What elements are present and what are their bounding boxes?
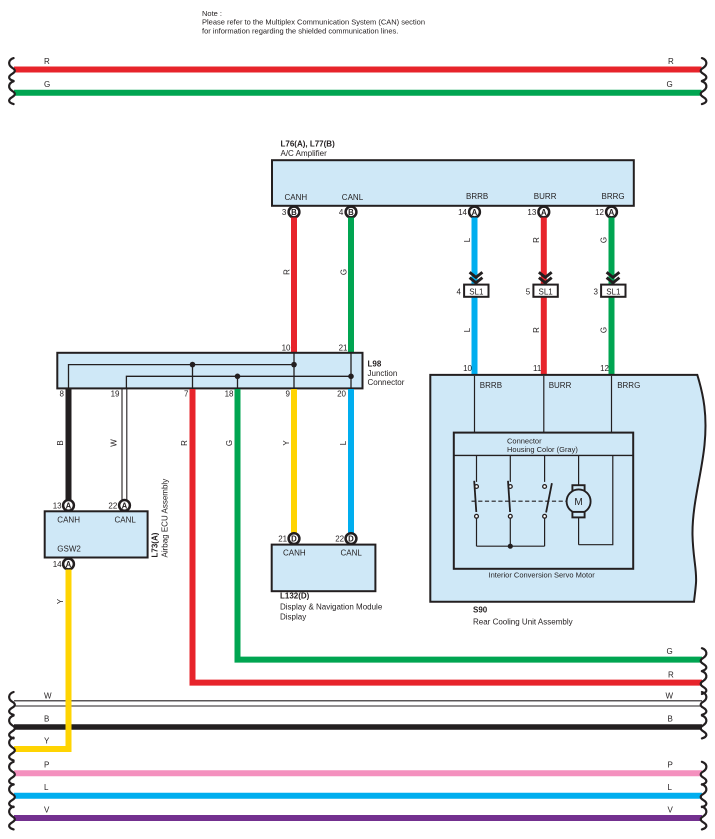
wire L (L98 pin 20 to display pin 22) xyxy=(339,389,351,533)
wire Y (L98 pin 9 to display pin 21) xyxy=(282,389,294,533)
svg-text:W: W xyxy=(44,692,52,701)
L98 internal vertical pin 7 xyxy=(192,365,194,388)
svg-text:BRRB: BRRB xyxy=(466,192,488,201)
svg-text:S90: S90 xyxy=(473,606,488,615)
wire B bottom horizontal xyxy=(14,715,702,727)
A/C amplifier box xyxy=(272,160,634,206)
pin 22 D (display CANL) xyxy=(335,533,356,544)
svg-text:GSW2: GSW2 xyxy=(57,545,81,554)
svg-text:18: 18 xyxy=(225,390,234,399)
wire G BRRG vertical (A/C pin 12 to S90 pin 12) xyxy=(600,218,612,376)
wire break squiggle top G left xyxy=(9,81,15,104)
svg-text:21: 21 xyxy=(278,535,287,544)
wire break squiggle R right xyxy=(701,671,707,694)
L98 label xyxy=(368,360,405,388)
svg-text:4: 4 xyxy=(456,287,461,296)
display module box L132 xyxy=(272,545,376,592)
splice SL1 no.5 xyxy=(526,272,558,297)
L98 internal vertical pin 10-9 xyxy=(293,354,295,389)
node pin18 junction xyxy=(235,374,241,380)
svg-text:A: A xyxy=(122,501,128,510)
svg-text:V: V xyxy=(44,806,50,815)
svg-text:A: A xyxy=(472,208,478,217)
svg-text:P: P xyxy=(668,761,673,770)
S90 label xyxy=(473,606,573,627)
switch common bus xyxy=(477,545,545,547)
wire W bottom horizontal xyxy=(14,692,702,706)
node pin7 junction xyxy=(190,362,196,368)
wire break squiggle L left xyxy=(9,784,15,807)
wire break squiggle G right xyxy=(701,648,707,671)
svg-text:BRRB: BRRB xyxy=(480,381,502,390)
switch SW1 xyxy=(474,455,478,546)
svg-text:14: 14 xyxy=(458,208,467,217)
svg-text:L98: L98 xyxy=(368,360,382,369)
svg-text:A: A xyxy=(66,560,72,569)
svg-text:Please refer to the Multiplex: Please refer to the Multiplex Communicat… xyxy=(202,18,425,27)
svg-text:A: A xyxy=(609,208,615,217)
node pin10 junction xyxy=(291,362,297,368)
L98 internal vertical pin 18 xyxy=(237,376,239,388)
svg-text:A/C Amplifier: A/C Amplifier xyxy=(281,149,328,158)
node switch bus junction xyxy=(508,544,513,549)
wire break squiggle V right xyxy=(701,807,707,830)
svg-text:Junction: Junction xyxy=(368,369,398,378)
S90 internal lead BURR xyxy=(544,376,572,432)
wire Y (airbag pin 14 to left edge) xyxy=(14,570,69,750)
wire break squiggle top R left xyxy=(9,58,15,81)
wire break squiggle W right xyxy=(701,692,707,715)
wire W (L98 pin 19 to airbag pin 22) xyxy=(110,389,127,500)
wire break squiggle top R right xyxy=(701,58,707,81)
svg-text:3: 3 xyxy=(282,208,287,217)
svg-text:21: 21 xyxy=(339,344,348,353)
pin 4 B (A/C CANL) xyxy=(339,207,357,218)
svg-text:L: L xyxy=(44,783,49,792)
pin 14 A (A/C BRRB) xyxy=(458,207,480,218)
motor M1 xyxy=(567,455,591,545)
pin 21 D (display CANH) xyxy=(278,533,299,544)
svg-text:B: B xyxy=(56,440,65,445)
servo motor inner box xyxy=(454,433,633,580)
L98 internal upper bus xyxy=(69,365,295,388)
svg-text:22: 22 xyxy=(108,501,117,510)
svg-text:P: P xyxy=(44,761,49,770)
wire break squiggle B right xyxy=(701,716,707,739)
svg-text:14: 14 xyxy=(53,560,62,569)
svg-text:L: L xyxy=(463,327,472,332)
svg-text:G: G xyxy=(225,440,234,446)
svg-text:G: G xyxy=(600,327,609,333)
svg-text:Y: Y xyxy=(282,440,291,446)
svg-text:Connector: Connector xyxy=(368,378,405,387)
svg-text:G: G xyxy=(44,80,50,89)
wire R top horizontal xyxy=(14,57,702,70)
wire P bottom horizontal xyxy=(14,761,702,774)
svg-text:Rear Cooling Unit Assembly: Rear Cooling Unit Assembly xyxy=(473,617,573,626)
svg-text:G: G xyxy=(600,237,609,243)
wire V bottom horizontal xyxy=(14,806,702,819)
splice SL1 no.4 xyxy=(456,272,488,297)
S90 internal lead BRRB xyxy=(475,376,503,432)
svg-text:3: 3 xyxy=(593,287,598,296)
wire G (L98 pin 18 to right edge) xyxy=(225,389,702,660)
A/C amplifier L76/L77 label xyxy=(281,140,336,159)
svg-text:R: R xyxy=(283,269,292,275)
svg-text:Note :: Note : xyxy=(202,9,222,18)
svg-text:BURR: BURR xyxy=(549,381,572,390)
svg-text:8: 8 xyxy=(60,390,65,399)
svg-text:L73(A): L73(A) xyxy=(151,532,160,557)
svg-text:11: 11 xyxy=(533,364,542,373)
svg-text:L: L xyxy=(339,440,348,445)
wire B (L98 pin 8 to airbag pin 13) xyxy=(56,389,69,500)
svg-text:CANH: CANH xyxy=(283,549,306,558)
switch SW2 xyxy=(508,455,512,546)
wire break squiggle V left xyxy=(9,807,15,830)
svg-text:G: G xyxy=(667,647,673,656)
node pin21 junction xyxy=(348,374,354,380)
wire G top horizontal xyxy=(14,80,702,93)
wire break squiggle Y left xyxy=(9,738,15,761)
wire R BURR vertical (A/C pin 13 to S90 pin 11) xyxy=(532,218,544,376)
L98 internal lower bus xyxy=(126,376,351,388)
svg-text:R: R xyxy=(668,671,674,680)
wire break squiggle top G right xyxy=(701,81,707,104)
L98 pin labels top xyxy=(282,344,348,353)
svg-text:13: 13 xyxy=(527,208,536,217)
svg-text:Display & Navigation Module: Display & Navigation Module xyxy=(280,602,383,611)
splice SL1 no.3 xyxy=(593,272,625,297)
pin 13 A (airbag CANH) xyxy=(53,500,74,511)
svg-text:B: B xyxy=(348,208,354,217)
svg-text:CANL: CANL xyxy=(342,193,364,202)
L132(D) display label xyxy=(280,592,383,622)
motor return wire xyxy=(579,455,613,545)
svg-text:Housing Color (Gray): Housing Color (Gray) xyxy=(507,445,578,454)
pin 14 A (airbag GSW2) xyxy=(53,559,74,570)
junction connector L98 box xyxy=(57,353,362,389)
svg-text:A: A xyxy=(66,501,72,510)
svg-text:D: D xyxy=(291,535,297,544)
svg-text:BRRG: BRRG xyxy=(617,381,640,390)
svg-text:Y: Y xyxy=(56,598,65,604)
svg-text:B: B xyxy=(44,715,49,724)
wire break squiggle W left xyxy=(9,692,15,715)
svg-text:CANL: CANL xyxy=(341,549,363,558)
svg-text:B: B xyxy=(668,715,673,724)
L98 internal vertical pin 21-20 xyxy=(350,354,352,389)
wire break squiggle B left xyxy=(9,716,15,739)
S90 internal lead BRRG xyxy=(612,376,641,432)
wire L bottom horizontal xyxy=(14,783,702,796)
svg-text:CANH: CANH xyxy=(285,193,308,202)
pin 12 A (A/C BRRG) xyxy=(595,207,617,218)
svg-text:R: R xyxy=(44,57,50,66)
svg-text:R: R xyxy=(180,440,189,446)
switch linkage dashed xyxy=(472,500,567,502)
svg-text:G: G xyxy=(340,269,349,275)
svg-text:R: R xyxy=(532,237,541,243)
svg-text:10: 10 xyxy=(463,364,472,373)
svg-text:Airbag ECU Assembly: Airbag ECU Assembly xyxy=(161,479,170,558)
svg-text:13: 13 xyxy=(53,501,62,510)
svg-text:7: 7 xyxy=(184,390,189,399)
svg-text:D: D xyxy=(348,535,354,544)
svg-text:A: A xyxy=(541,208,547,217)
pin 13 A (A/C BURR) xyxy=(527,207,549,218)
svg-text:R: R xyxy=(532,327,541,333)
svg-text:12: 12 xyxy=(600,364,609,373)
svg-text:CANL: CANL xyxy=(115,516,137,525)
svg-text:L: L xyxy=(668,783,673,792)
L73(A) airbag label rotated xyxy=(151,479,170,558)
pin 3 B (A/C CANH) xyxy=(282,207,300,218)
svg-text:L132(D): L132(D) xyxy=(280,592,310,601)
svg-text:BURR: BURR xyxy=(534,192,557,201)
svg-text:M: M xyxy=(574,497,582,508)
svg-text:10: 10 xyxy=(282,344,291,353)
svg-text:CANH: CANH xyxy=(57,516,80,525)
svg-text:L76(A), L77(B): L76(A), L77(B) xyxy=(281,140,336,149)
wire G CANL vertical (A/C pin 4 to L98 pin 21) xyxy=(340,218,352,354)
svg-text:B: B xyxy=(291,208,297,217)
svg-text:W: W xyxy=(110,439,119,447)
wire break squiggle P left xyxy=(9,762,15,785)
wire R (L98 pin 7 to right edge) xyxy=(180,389,702,683)
airbag ECU box GSW2 xyxy=(45,511,148,557)
svg-text:Interior Conversion Servo Moto: Interior Conversion Servo Motor xyxy=(489,571,596,580)
svg-text:for information regarding the: for information regarding the shielded c… xyxy=(202,26,398,35)
svg-text:19: 19 xyxy=(111,390,120,399)
svg-text:5: 5 xyxy=(526,287,531,296)
S90 pin labels top xyxy=(463,364,609,373)
svg-text:Y: Y xyxy=(44,736,50,745)
wire R CANH vertical (A/C pin 3 to L98 pin 10) xyxy=(283,218,295,354)
svg-text:Display: Display xyxy=(280,612,306,621)
svg-text:22: 22 xyxy=(335,535,344,544)
L98 pin labels bottom xyxy=(60,390,347,399)
wire break squiggle L right xyxy=(701,784,707,807)
svg-text:G: G xyxy=(667,80,673,89)
rear cooling unit S90 box xyxy=(430,375,705,602)
svg-text:BRRG: BRRG xyxy=(602,192,625,201)
note text xyxy=(202,9,425,35)
svg-text:L: L xyxy=(463,237,472,242)
wire L BRRB vertical (A/C pin 14 to S90 pin 10) xyxy=(463,218,475,376)
svg-text:V: V xyxy=(668,806,674,815)
svg-text:4: 4 xyxy=(339,208,344,217)
svg-text:W: W xyxy=(666,692,674,701)
svg-text:20: 20 xyxy=(337,390,346,399)
svg-text:9: 9 xyxy=(286,390,291,399)
switch SW3 open xyxy=(543,455,552,546)
wire break squiggle P right xyxy=(701,762,707,785)
pin 22 A (airbag CANL) xyxy=(108,500,130,511)
svg-text:12: 12 xyxy=(595,208,604,217)
svg-text:R: R xyxy=(668,57,674,66)
